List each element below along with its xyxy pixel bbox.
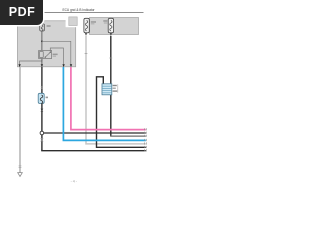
right junction/fuse box: [90, 18, 139, 35]
wire: relay bottom to pin 2: [41, 59, 43, 67]
connector pair above fuse: [41, 86, 44, 87]
wire: breaker to relay: [41, 31, 43, 50]
wire W (white) from F1 down: [86, 36, 146, 144]
fuse F2 (right): [108, 18, 113, 33]
wire B (black) from F2 down: [110, 36, 112, 136]
pin 4 (left box): [70, 64, 72, 67]
pin below F2: [110, 33, 112, 36]
F1 label: [91, 21, 96, 23]
PDF badge: [0, 0, 43, 25]
striped connector block (ignition switch): [102, 84, 112, 95]
striped connector labels: [113, 85, 117, 86]
left relay block box: [17, 21, 75, 67]
fuse F1 (left, on right box edge): [84, 18, 89, 33]
circuit breaker CB1 (in left box): [40, 24, 45, 31]
small connector box J1 (top-right of left box): [69, 17, 77, 26]
row end connector stubs: [145, 128, 147, 151]
wire below F3 with connector pair: [41, 103, 43, 150]
CB1 value label: [47, 25, 51, 27]
ground symbol: [18, 173, 23, 177]
connector ticks on ground wire: [19, 165, 22, 167]
pin 3 (left box): [62, 64, 64, 67]
pin below F1: [85, 33, 87, 36]
wire GND (gray) from pin1 to ground: [19, 67, 21, 173]
notch (white) at top-right of left box: [66, 19, 77, 27]
wire P (pink) pin4 down and right: [71, 67, 146, 130]
node: branch junction: [41, 40, 43, 42]
svg-text:- 4 -: - 4 -: [71, 180, 78, 184]
relay label: [53, 54, 58, 56]
fuse F3 (blue, mid): [38, 93, 44, 103]
wire: relay to left ground pin jog: [20, 59, 42, 66]
connector tick on white wire: [85, 53, 88, 55]
connector pair symbol: [41, 109, 44, 111]
relay DRL (coil + contact): [39, 50, 52, 58]
wire row 2 from splice: [44, 132, 146, 134]
splice node (open circle): [40, 131, 44, 135]
wire row 7 (bottom) from main black: [42, 149, 146, 152]
wire B main (black) pin2 down to fuse: [41, 67, 43, 93]
wire: relay contact to cyan pin: [50, 48, 63, 66]
F2 label: [103, 20, 107, 22]
connector pair symbol 2: [40, 138, 43, 140]
label bracket: [117, 84, 119, 92]
pin 2 (left box): [41, 64, 43, 67]
wire: dark L to striped connector: [97, 77, 146, 148]
connector tick on black wire: [109, 57, 112, 59]
wire L (cyan) pin3 down and right: [63, 67, 145, 140]
wire row 3 (gray tail of B wire): [110, 135, 146, 137]
pin 1 (left box): [18, 64, 20, 67]
svg-text:ECU gnd & B Indicator: ECU gnd & B Indicator: [63, 8, 96, 12]
title underline rule: [44, 11, 144, 13]
F3 label: [46, 97, 48, 99]
wire: branch to pink pin: [42, 41, 71, 65]
